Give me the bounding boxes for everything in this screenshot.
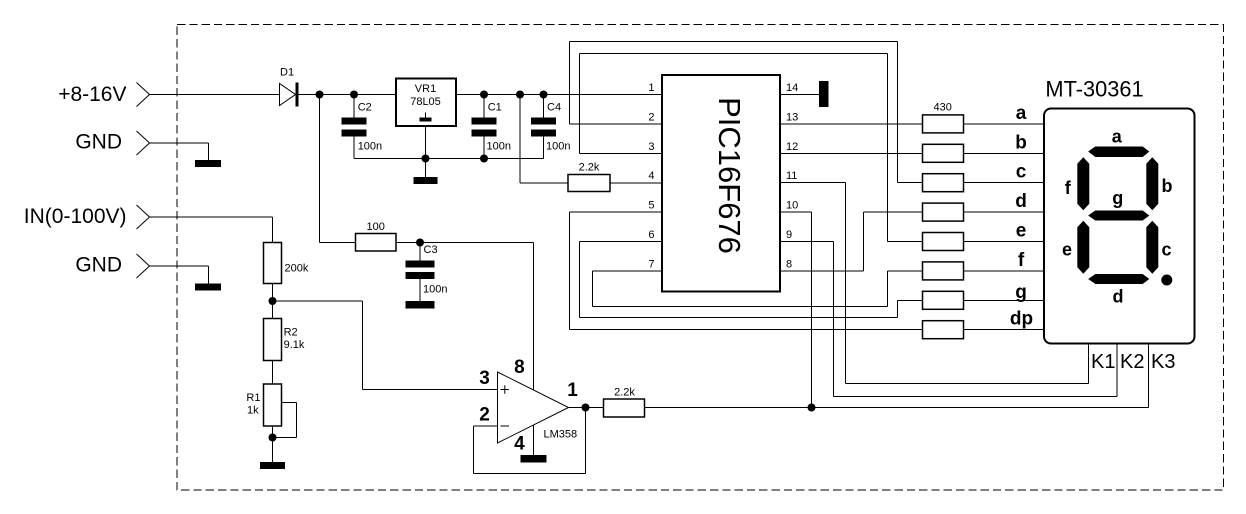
svg-text:100n: 100n: [358, 141, 382, 153]
svg-text:3: 3: [648, 141, 654, 153]
svg-text:5: 5: [648, 200, 654, 212]
svg-text:b: b: [1162, 176, 1173, 196]
svg-text:100n: 100n: [487, 141, 511, 153]
svg-text:11: 11: [786, 170, 797, 182]
svg-text:K3: K3: [1151, 351, 1175, 373]
svg-text:7: 7: [648, 258, 654, 270]
svg-text:78L05: 78L05: [410, 96, 441, 108]
svg-text:C3: C3: [424, 244, 438, 256]
svg-text:430: 430: [934, 102, 952, 114]
svg-text:f: f: [1018, 250, 1025, 271]
svg-text:e: e: [1062, 240, 1072, 260]
svg-text:2.2k: 2.2k: [579, 162, 600, 174]
svg-text:MT-30361: MT-30361: [1045, 77, 1143, 102]
svg-text:e: e: [1016, 221, 1027, 242]
svg-text:1: 1: [567, 380, 578, 401]
svg-text:a: a: [1112, 127, 1123, 147]
svg-text:dp: dp: [1010, 309, 1033, 330]
svg-text:b: b: [1015, 132, 1027, 153]
svg-text:D1: D1: [280, 67, 294, 79]
svg-text:a: a: [1016, 103, 1027, 124]
svg-text:2: 2: [479, 405, 490, 426]
svg-text:12: 12: [786, 141, 798, 153]
svg-text:9: 9: [786, 229, 792, 241]
svg-text:LM358: LM358: [544, 429, 578, 441]
svg-text:g: g: [1112, 188, 1123, 208]
svg-text:13: 13: [786, 111, 798, 123]
svg-text:3: 3: [479, 368, 490, 389]
svg-text:1k: 1k: [247, 405, 259, 417]
svg-text:4: 4: [514, 433, 525, 454]
svg-text:IN(0-100V): IN(0-100V): [24, 205, 127, 228]
svg-text:f: f: [1065, 178, 1072, 198]
svg-text:K1: K1: [1091, 351, 1115, 373]
svg-text:d: d: [1113, 287, 1124, 307]
svg-text:6: 6: [648, 229, 654, 241]
svg-text:c: c: [1161, 240, 1171, 260]
svg-text:d: d: [1015, 191, 1027, 212]
svg-text:C2: C2: [358, 102, 372, 114]
svg-text:200k: 200k: [285, 263, 309, 275]
svg-text:g: g: [1015, 282, 1027, 303]
svg-text:100n: 100n: [546, 141, 570, 153]
svg-text:GND: GND: [75, 254, 122, 277]
svg-text:10: 10: [786, 200, 798, 212]
svg-text:C4: C4: [547, 102, 561, 114]
svg-text:14: 14: [786, 82, 798, 94]
svg-text:c: c: [1016, 162, 1027, 183]
svg-text:100n: 100n: [423, 284, 447, 296]
svg-text:C1: C1: [488, 102, 502, 114]
svg-text:K2: K2: [1120, 351, 1144, 373]
svg-text:R1: R1: [246, 392, 260, 404]
svg-text:4: 4: [648, 170, 654, 182]
svg-text:GND: GND: [75, 131, 122, 154]
svg-text:1: 1: [648, 82, 654, 94]
svg-text:100: 100: [367, 221, 385, 233]
svg-text:8: 8: [786, 258, 792, 270]
svg-text:2.2k: 2.2k: [614, 387, 635, 399]
svg-text:2: 2: [648, 111, 654, 123]
svg-text:VR1: VR1: [415, 83, 436, 95]
svg-text:9.1k: 9.1k: [284, 339, 305, 351]
svg-text:+8-16V: +8-16V: [58, 83, 126, 106]
svg-text:R2: R2: [284, 327, 298, 339]
svg-text:PIC16F676: PIC16F676: [712, 97, 747, 254]
svg-text:8: 8: [514, 357, 525, 378]
